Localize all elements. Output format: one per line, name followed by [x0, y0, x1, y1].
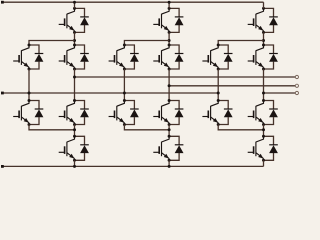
IGBT cell Q11 (phase B row3 right)	[153, 99, 183, 126]
junction on DC+ rail phase A	[73, 1, 76, 4]
junction L-wire bottom phase A	[73, 128, 76, 131]
junction L-wire bottom phase B	[168, 128, 171, 131]
neutral rail N	[2, 92, 218, 94]
terminal A	[295, 75, 298, 78]
wire Q18 to DC- rail	[263, 160, 265, 166]
wire phase B left mid	[123, 69, 125, 101]
wire Q1 emitter down	[74, 32, 76, 45]
IGBT cell Q3 (phase A row2 right)	[59, 44, 89, 71]
junction on DC+ rail phase B	[168, 1, 171, 4]
IGBT cell Q14 (phase C row2 left)	[202, 44, 232, 71]
IGBT cell Q1 (phase A top)	[59, 7, 89, 34]
junction output B	[168, 84, 171, 87]
IGBT cell Q12 (phase B bottom)	[153, 135, 183, 162]
IGBT cell Q9 (phase B row2 right)	[153, 44, 183, 71]
wire phase C right mid	[263, 69, 265, 101]
junction on DC- rail phase B	[168, 165, 171, 168]
terminal DC-	[1, 165, 4, 168]
IGBT cell Q6 (phase A bottom)	[59, 135, 89, 162]
IGBT cell Q8 (phase B row2 left)	[109, 44, 139, 71]
wire row3 to row4 phase C	[263, 125, 265, 137]
wire L top phase B	[124, 41, 169, 46]
wire phase A left mid	[28, 69, 30, 101]
junction output A	[73, 76, 76, 79]
negative DC rail	[2, 165, 264, 167]
wire L bottom phase B	[124, 125, 169, 130]
phase C output wire	[264, 92, 296, 94]
junction neutral phase B	[123, 92, 126, 95]
wire Q12 to DC- rail	[168, 160, 170, 166]
wire L bottom phase C	[218, 125, 263, 130]
IGBT cell Q17 (phase C row3 right)	[248, 99, 278, 126]
wire Q13 emitter down	[263, 32, 265, 45]
IGBT cell Q10 (phase B row3 left)	[109, 99, 139, 126]
wire DC+ rail to Q7	[168, 2, 170, 8]
IGBT cell Q7 (phase B top)	[153, 7, 183, 34]
positive DC rail	[2, 1, 264, 3]
IGBT cell Q13 (phase C top)	[248, 7, 278, 34]
wire phase B right mid	[168, 69, 170, 101]
IGBT cell Q2 (phase A row2 left)	[13, 44, 43, 71]
wire Q7 emitter down	[168, 32, 170, 45]
terminal N	[1, 92, 4, 95]
junction L-wire bottom phase C	[262, 128, 265, 131]
junction L-wire top phase B	[168, 39, 171, 42]
wire phase C left mid	[217, 69, 219, 101]
IGBT cell Q16 (phase C row3 left)	[202, 99, 232, 126]
wire L bottom phase A	[29, 125, 75, 130]
junction neutral phase A	[28, 92, 31, 95]
wire row3 to row4 phase B	[168, 125, 170, 137]
junction L-wire top phase C	[262, 39, 265, 42]
phase B output wire	[169, 85, 295, 87]
wire DC+ rail to Q1	[74, 2, 76, 8]
IGBT cell Q5 (phase A row3 right)	[59, 99, 89, 126]
phase A output wire	[75, 76, 296, 78]
junction on DC- rail phase A	[73, 165, 76, 168]
wire row3 to row4 phase A	[74, 125, 76, 137]
wire phase A right mid	[74, 69, 76, 101]
wire L top phase A	[29, 41, 75, 46]
IGBT cell Q15 (phase C row2 right)	[248, 44, 278, 71]
junction neutral phase C	[217, 92, 220, 95]
junction L-wire top phase A	[73, 39, 76, 42]
junction output C	[262, 92, 265, 95]
IGBT cell Q4 (phase A row3 left)	[13, 99, 43, 126]
IGBT cell Q18 (phase C bottom)	[248, 135, 278, 162]
wire L top phase C	[218, 41, 263, 46]
terminal C	[295, 91, 298, 94]
wire DC+ rail to Q13	[263, 2, 265, 8]
terminal DC+	[1, 1, 4, 4]
wire Q6 to DC- rail	[74, 160, 76, 166]
terminal B	[295, 84, 298, 87]
